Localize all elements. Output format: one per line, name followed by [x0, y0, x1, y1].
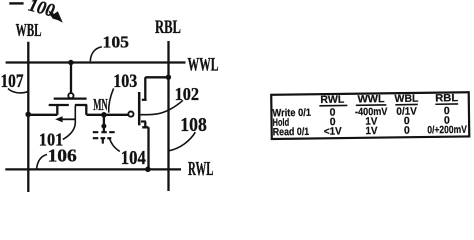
capacitor 104: bottom lead stub: [102, 138, 104, 143]
leader 102: [141, 100, 183, 114]
svg-text:MN: MN: [93, 95, 108, 114]
wire RWL (horizontal word line): [5, 168, 181, 170]
svg-text:WBL: WBL: [16, 20, 42, 40]
capacitor 104: top plate (dashed): [93, 131, 115, 133]
label 108 (RBL lead): [180, 114, 207, 136]
capacitor 104: lead from MN: [103, 115, 105, 132]
transistor 102: drain wire from RBL: [145, 77, 168, 100]
transistor 102: gate bubble: [128, 112, 133, 117]
svg-text:100: 100: [26, 0, 56, 22]
leader 106: [37, 155, 48, 170]
svg-text:104: 104: [121, 147, 146, 169]
label 102: [175, 84, 200, 104]
node label WBL: [16, 20, 42, 40]
label 105 (WWL lead): [103, 33, 130, 52]
wire RBL (vertical bit line): [167, 41, 169, 191]
svg-text:RWL: RWL: [320, 94, 345, 106]
transistor 101: gate bar: [54, 97, 87, 99]
junction dot RBL/drain: [166, 75, 171, 80]
wire 101 drain to node MN and 102 gate: [86, 114, 128, 116]
svg-text:105: 105: [103, 33, 130, 52]
label 107 (WBL lead): [1, 71, 24, 92]
svg-text:108: 108: [180, 114, 207, 136]
transistor 102: source bend wire to RWL: [142, 127, 148, 169]
svg-text:WBL: WBL: [394, 93, 419, 105]
transistor 101: gate bubble: [68, 93, 73, 98]
node MN junction dot: [101, 112, 107, 118]
transistor 102: source contact stub: [144, 122, 146, 128]
voltage table: [271, 92, 469, 139]
label 104: [121, 147, 146, 169]
transistor 101: left terminal stub: [56, 105, 58, 115]
node label RBL: [155, 17, 181, 38]
svg-text:102: 102: [175, 84, 200, 104]
svg-text:WWL: WWL: [357, 93, 385, 105]
svg-text:0: 0: [404, 125, 410, 137]
svg-text:103: 103: [113, 71, 137, 92]
wire WBL (vertical bit line): [27, 42, 29, 192]
transistor 101: left source/drain contact bar: [49, 104, 69, 106]
svg-text:107: 107: [1, 71, 24, 92]
figure pointer 100 text: [26, 0, 56, 22]
svg-text:RBL: RBL: [155, 17, 181, 38]
svg-text:0/+200mV: 0/+200mV: [427, 124, 467, 137]
junction dot WWL/gate-101: [68, 60, 73, 65]
table border: [271, 92, 469, 139]
transistor 102: gate bar: [138, 92, 141, 125]
transistor 101: right terminal stub: [85, 105, 87, 115]
svg-text:Read 0/1: Read 0/1: [273, 126, 310, 138]
header underline RWL: [319, 104, 347, 106]
svg-text:<1V: <1V: [324, 125, 342, 137]
leader 103: [109, 88, 114, 112]
transistor 101: right source/drain contact bar: [75, 104, 87, 106]
label 106 (RWL lead): [48, 146, 78, 166]
wire WBL to 101 source: [28, 114, 57, 116]
label 103 (storage node): [113, 71, 137, 92]
svg-text:WWL: WWL: [188, 55, 219, 75]
leader 108: [169, 132, 196, 151]
figure pointer 100 dash: [9, 2, 23, 4]
leader 101: [63, 106, 76, 140]
node label WWL: [188, 55, 219, 75]
header underline WWL: [356, 104, 386, 106]
junction dot RWL/source: [145, 167, 151, 173]
leader 107: [8, 89, 28, 93]
node label MN: [93, 95, 108, 114]
transistor 102: bottom contact tick: [141, 120, 146, 122]
header underline WBL: [395, 103, 417, 105]
svg-text:RBL: RBL: [435, 92, 459, 104]
svg-text:RWL: RWL: [188, 159, 214, 180]
wire WWL (horizontal word line): [6, 61, 186, 63]
transistor 101: gate wire from WWL: [70, 63, 72, 93]
node label RWL: [188, 159, 214, 180]
figure pointer 100 arrowhead: [48, 10, 63, 23]
capacitor 104: bottom plate (dashed): [93, 137, 112, 139]
leader 105: [90, 47, 102, 62]
transistor 101: body arrow (points left): [61, 118, 75, 120]
leader 104: [109, 138, 119, 151]
label 101: [39, 130, 64, 150]
header underline RBL: [435, 103, 458, 105]
junction dot on capacitor lead: [101, 124, 106, 129]
svg-text:106: 106: [48, 146, 78, 166]
junction dot WBL/wire: [25, 112, 31, 118]
svg-text:1V: 1V: [365, 125, 377, 137]
transistor 102: top contact tick: [142, 99, 147, 101]
